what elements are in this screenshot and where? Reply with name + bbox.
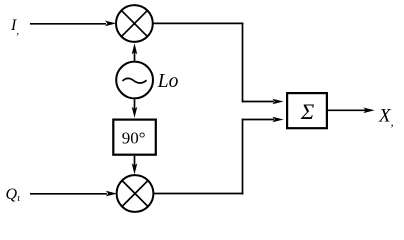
svg-text:90°: 90° [122, 128, 146, 147]
svg-text:X,: X, [378, 105, 394, 128]
svg-text:Qι: Qι [6, 186, 21, 204]
svg-text:Lo: Lo [157, 71, 179, 92]
svg-text:Σ: Σ [300, 99, 315, 124]
svg-text:I,: I, [10, 17, 19, 37]
